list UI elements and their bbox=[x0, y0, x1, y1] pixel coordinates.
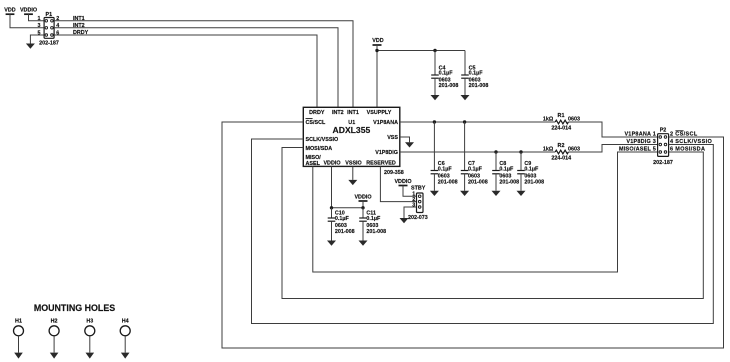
wire VSS to ground bbox=[400, 137, 410, 142]
junction (C9 top) bbox=[519, 150, 522, 153]
svg-text:VDD: VDD bbox=[4, 8, 15, 14]
ground (C7) bbox=[460, 191, 469, 196]
value label 202-073 (STBY) bbox=[408, 215, 428, 221]
junction (C8 top) bbox=[494, 150, 497, 153]
svg-text:3: 3 bbox=[38, 23, 41, 29]
ground (VSS) bbox=[405, 142, 414, 147]
ground (C9) bbox=[517, 191, 526, 196]
mounting hole H4 bbox=[120, 319, 130, 353]
svg-text:V1P8ANA: V1P8ANA bbox=[373, 120, 398, 126]
svg-text:202-187: 202-187 bbox=[39, 40, 59, 46]
svg-text:201-008: 201-008 bbox=[469, 83, 489, 89]
power VDDIO (top-left) bbox=[20, 8, 37, 15]
svg-text:201-008: 201-008 bbox=[439, 83, 459, 89]
svg-text:201-008: 201-008 bbox=[499, 179, 519, 185]
connector P1 bbox=[44, 12, 54, 38]
capacitor C5 bbox=[461, 51, 488, 96]
pin number 3 (P1) bbox=[38, 23, 41, 29]
svg-text:202-187: 202-187 bbox=[653, 160, 673, 166]
svg-text:224-014: 224-014 bbox=[551, 125, 571, 131]
svg-text:201-008: 201-008 bbox=[366, 229, 386, 235]
svg-text:0.1µF: 0.1µF bbox=[438, 166, 453, 172]
IC U1 ADXL355 bbox=[303, 107, 400, 167]
value label 209-358 (U1) bbox=[384, 170, 404, 176]
capacitor C11 bbox=[359, 208, 386, 241]
ground (VSSIO) bbox=[348, 180, 357, 185]
svg-text:H4: H4 bbox=[122, 319, 129, 325]
svg-text:0.1µF: 0.1µF bbox=[499, 166, 514, 172]
svg-text:VDD: VDD bbox=[372, 38, 383, 44]
svg-text:V1P8DIG 3: V1P8DIG 3 bbox=[626, 139, 656, 145]
mounting hole H1 bbox=[14, 319, 24, 353]
value label 202-187 (P1) bbox=[39, 40, 59, 46]
svg-text:P2: P2 bbox=[660, 128, 667, 134]
wire R2 to P2 pin3 bbox=[568, 145, 657, 153]
svg-text:RESERVED: RESERVED bbox=[366, 161, 396, 167]
pin number 1 (STBY) bbox=[412, 192, 415, 198]
node INT1 label bbox=[73, 16, 85, 22]
svg-text:4: 4 bbox=[56, 23, 59, 29]
svg-text:0.1µF: 0.1µF bbox=[468, 166, 483, 172]
wire VDD rail to C4 C5 bbox=[377, 50, 465, 52]
svg-text:201-008: 201-008 bbox=[524, 179, 544, 185]
pin number 5 (P1) bbox=[38, 30, 41, 36]
ground (STBY pin3) bbox=[400, 218, 409, 223]
svg-text:INT1: INT1 bbox=[347, 110, 359, 116]
wire DRDY P1 pin6 to U1 bbox=[54, 35, 317, 107]
title MOUNTING HOLES bbox=[34, 303, 115, 313]
capacitor C4 bbox=[431, 51, 458, 96]
capacitor C6 bbox=[431, 122, 458, 191]
capacitor C8 bbox=[492, 152, 519, 191]
capacitor C9 bbox=[517, 152, 544, 191]
svg-text:VDDIO: VDDIO bbox=[354, 195, 371, 201]
ground (C11) bbox=[359, 241, 368, 246]
svg-text:MOSI/SDA: MOSI/SDA bbox=[306, 146, 333, 152]
node 2 CS/SCL label (P2) bbox=[670, 131, 698, 138]
svg-text:5: 5 bbox=[38, 30, 41, 36]
svg-text:201-008: 201-008 bbox=[335, 229, 355, 235]
ground (H2) bbox=[50, 353, 59, 359]
svg-text:201-008: 201-008 bbox=[468, 179, 488, 185]
svg-text:2: 2 bbox=[56, 16, 59, 22]
wire VSSIO to ground bbox=[352, 166, 354, 180]
svg-text:224-014: 224-014 bbox=[551, 155, 571, 161]
pin number 2 (P1) bbox=[56, 16, 59, 22]
svg-text:CS/SCL: CS/SCL bbox=[306, 120, 326, 126]
wire V1P8DIG row bbox=[400, 151, 555, 153]
svg-text:VSSIO: VSSIO bbox=[345, 161, 361, 167]
junction (C7 top) bbox=[463, 120, 466, 123]
capacitor C10 bbox=[328, 208, 355, 241]
mounting hole H3 bbox=[85, 319, 95, 353]
wire INT1 P1 pin2 to U1 bbox=[54, 21, 353, 108]
node DRDY label bbox=[73, 30, 89, 36]
power VDD (top-left) bbox=[4, 8, 15, 15]
svg-text:VSUPPLY: VSUPPLY bbox=[367, 110, 392, 116]
junction (C10 top) bbox=[330, 206, 333, 209]
ground (C4) bbox=[431, 95, 440, 100]
wire VDD to P1 pin3 bbox=[10, 14, 44, 28]
svg-text:201-008: 201-008 bbox=[438, 179, 458, 185]
value label 202-187 (P2) bbox=[653, 160, 673, 166]
wire CS/SCL loop (P2 pin2 to U1) bbox=[222, 122, 724, 348]
wire R1 to P2 pin1 bbox=[568, 122, 657, 137]
wire VDDIO to P1 pin1 bbox=[29, 14, 45, 21]
svg-text:1: 1 bbox=[38, 16, 41, 22]
svg-text:3: 3 bbox=[412, 202, 415, 208]
wire MOSI/SDA loop (P2 pin6 to U1) bbox=[282, 148, 703, 299]
svg-text:1kΩ: 1kΩ bbox=[543, 116, 554, 122]
node 6 MOSI/SDA label (P2) bbox=[670, 147, 705, 153]
node V1P8DIG 3 label (P2) bbox=[626, 139, 656, 145]
node 4 SCLK/VSSIO label (P2) bbox=[670, 139, 712, 145]
svg-text:INT2: INT2 bbox=[332, 110, 344, 116]
node INT2 label bbox=[73, 23, 85, 29]
svg-text:209-358: 209-358 bbox=[384, 170, 404, 176]
svg-text:H3: H3 bbox=[86, 319, 93, 325]
svg-text:V1P8DIG: V1P8DIG bbox=[375, 150, 398, 156]
svg-text:VDDIO: VDDIO bbox=[394, 179, 411, 185]
wire MISO/ASEL loop (P2 pin5 to U1 ASEL) bbox=[313, 152, 658, 272]
wire VDD to VSUPPLY pin bbox=[376, 45, 378, 107]
svg-text:V1P8ANA 1: V1P8ANA 1 bbox=[624, 131, 656, 137]
svg-text:H2: H2 bbox=[51, 319, 58, 325]
svg-text:202-073: 202-073 bbox=[408, 215, 428, 221]
svg-text:1kΩ: 1kΩ bbox=[543, 146, 554, 152]
power VDD (VSUPPLY rail) bbox=[372, 38, 383, 45]
svg-text:ADXL355: ADXL355 bbox=[333, 125, 371, 135]
svg-text:0.1µF: 0.1µF bbox=[335, 216, 350, 222]
svg-text:0.1µF: 0.1µF bbox=[439, 71, 454, 77]
ground (C5) bbox=[461, 95, 470, 100]
svg-text:MOUNTING HOLES: MOUNTING HOLES bbox=[34, 303, 115, 313]
wire STBY pin3 to ground bbox=[404, 207, 417, 218]
svg-text:0.1µF: 0.1µF bbox=[524, 166, 539, 172]
node V1P8ANA 1 label (P2) bbox=[624, 131, 656, 137]
pin number 3 (STBY) bbox=[412, 202, 415, 208]
svg-text:VDDIO: VDDIO bbox=[323, 161, 340, 167]
junction (C4 top) bbox=[433, 49, 436, 52]
wire V1P8ANA row bbox=[400, 121, 555, 123]
pin number 6 (P1) bbox=[56, 30, 59, 36]
junction (C11 top) bbox=[361, 206, 364, 209]
svg-text:ASEL: ASEL bbox=[306, 161, 321, 167]
node MISO/ASEL 5 label (P2) bbox=[619, 147, 656, 153]
wire VDDIO to STBY pin1 bbox=[403, 186, 417, 197]
resistor R1 bbox=[543, 113, 580, 132]
connector P3 STBY bbox=[411, 186, 426, 213]
power VDDIO (C10/C11 rail) bbox=[354, 195, 371, 208]
mounting hole H2 bbox=[49, 319, 59, 353]
ground (H1) bbox=[14, 353, 23, 359]
svg-text:SCLK/VSSIO: SCLK/VSSIO bbox=[306, 137, 339, 143]
wire VDDIO pin to C10/C11 rail bbox=[332, 166, 364, 207]
ground (P1 pin5) bbox=[26, 44, 35, 49]
svg-text:0.1µF: 0.1µF bbox=[366, 216, 381, 222]
wire INT2 P1 pin4 to U1 bbox=[54, 28, 338, 108]
wire P1 pin5 to ground bbox=[30, 35, 44, 44]
connector P2 bbox=[658, 128, 669, 157]
ground (C6) bbox=[430, 191, 439, 196]
junction (VDD/VSUPPLY) bbox=[375, 49, 378, 52]
svg-text:R2: R2 bbox=[558, 143, 565, 149]
wire RESERVED to STBY pin2 bbox=[380, 166, 416, 201]
wire SCLK/VSSIO loop (P2 pin4 to U1) bbox=[252, 139, 714, 324]
svg-text:H1: H1 bbox=[15, 319, 22, 325]
ground (H4) bbox=[121, 353, 130, 359]
svg-text:0.1µF: 0.1µF bbox=[469, 71, 484, 77]
capacitor C7 bbox=[461, 122, 488, 191]
ground (C10) bbox=[327, 241, 336, 246]
svg-text:R1: R1 bbox=[558, 113, 565, 119]
junction (C6 top) bbox=[433, 120, 436, 123]
ground (C8) bbox=[492, 191, 501, 196]
svg-text:VDDIO: VDDIO bbox=[20, 8, 37, 14]
svg-text:DRDY: DRDY bbox=[309, 110, 325, 116]
power VDDIO (STBY) bbox=[394, 179, 411, 186]
pin number 1 (P1) bbox=[38, 16, 41, 22]
resistor R2 bbox=[543, 143, 580, 162]
pin number 2 (STBY) bbox=[412, 197, 415, 203]
ground (H3) bbox=[86, 353, 95, 359]
pin number 4 (P1) bbox=[56, 23, 59, 29]
svg-text:VSS: VSS bbox=[387, 135, 398, 141]
